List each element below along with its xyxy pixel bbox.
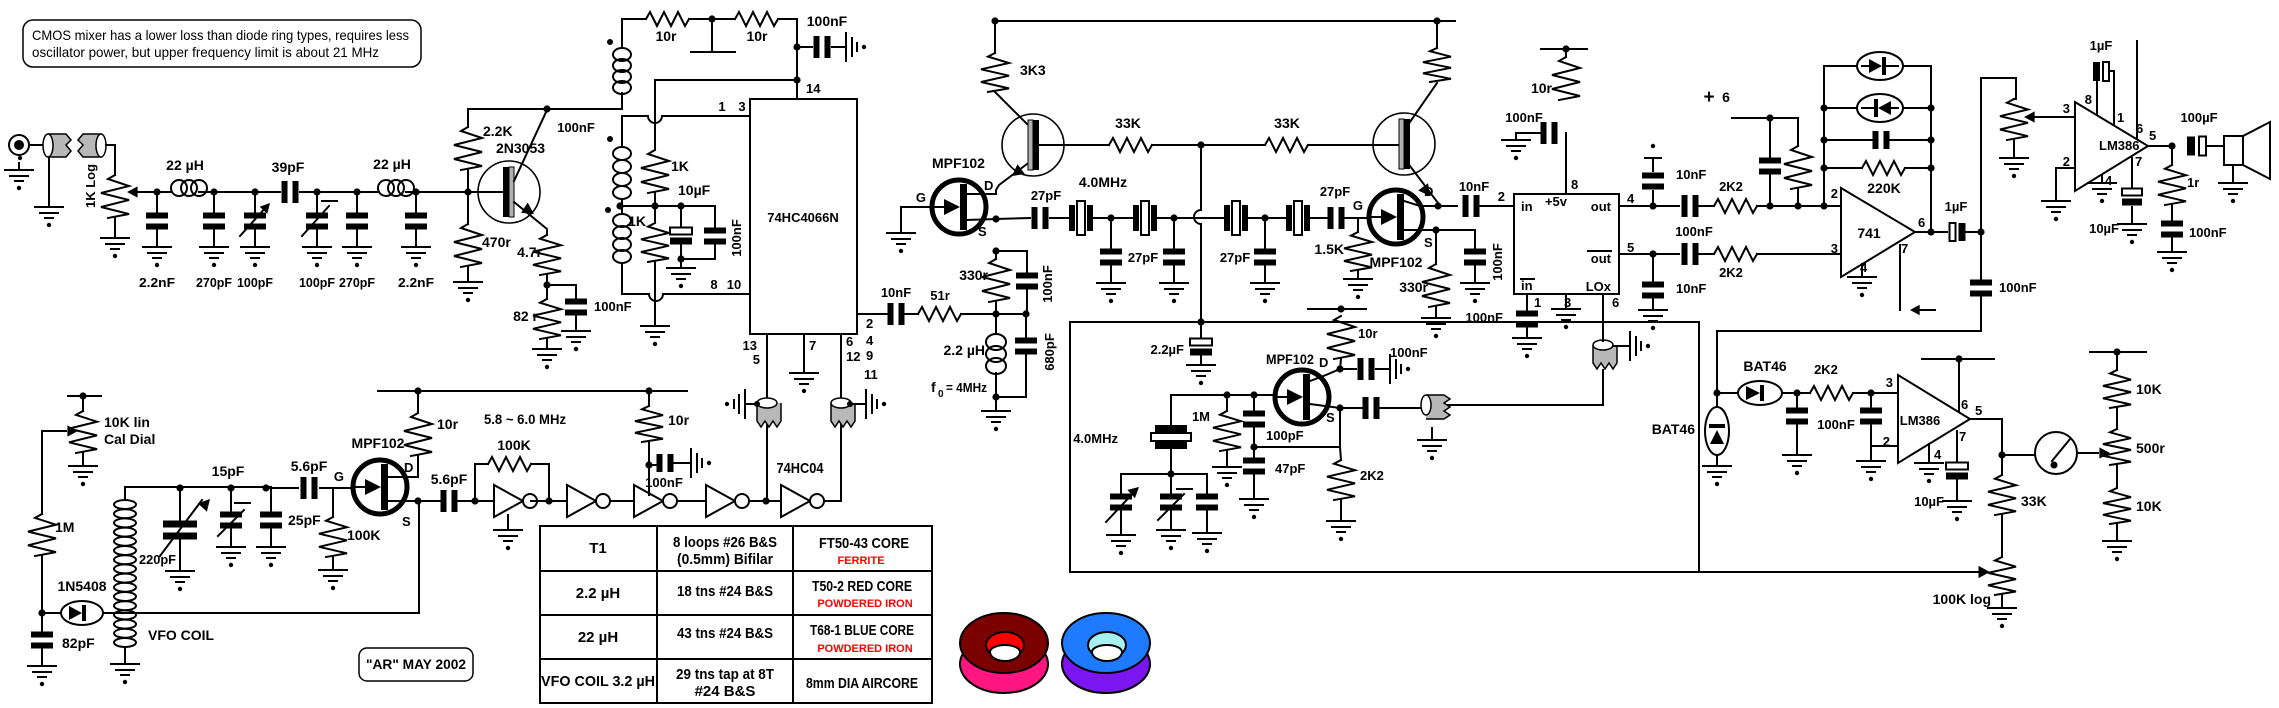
svg-text:270pF: 270pF [196, 275, 232, 290]
svg-text:oscillator power, but upper fr: oscillator power, but upper frequency li… [32, 44, 379, 60]
svg-text:1K Log: 1K Log [83, 164, 98, 208]
svg-text:5.6pF: 5.6pF [431, 471, 468, 487]
svg-text:LOx: LOx [1586, 279, 1612, 294]
svg-text:1M: 1M [55, 519, 74, 535]
svg-text:100nF: 100nF [557, 120, 595, 135]
svg-text:33K: 33K [2021, 493, 2047, 509]
svg-text:270pF: 270pF [339, 275, 375, 290]
svg-text:2K2: 2K2 [1719, 179, 1743, 194]
svg-text:500r: 500r [2136, 440, 2165, 456]
svg-text:#24 B&S: #24 B&S [695, 683, 756, 700]
svg-text:100pF: 100pF [237, 275, 273, 290]
svg-text:2N3053: 2N3053 [496, 140, 545, 156]
svg-text:10K: 10K [2136, 498, 2162, 514]
svg-text:4.7r: 4.7r [517, 244, 542, 260]
svg-text:CMOS mixer has a lower loss th: CMOS mixer has a lower loss than diode r… [32, 27, 409, 43]
svg-text:5: 5 [1627, 240, 1634, 255]
svg-text:10K lin: 10K lin [104, 414, 150, 430]
svg-text:1K: 1K [671, 158, 689, 174]
svg-text:100pF: 100pF [299, 275, 335, 290]
svg-text:1: 1 [2117, 110, 2124, 125]
svg-text:330r: 330r [959, 267, 988, 283]
svg-text:33K: 33K [1274, 115, 1300, 131]
svg-text:= 4MHz: = 4MHz [946, 380, 987, 395]
svg-text:+5v: +5v [1545, 194, 1568, 209]
svg-text:10r: 10r [1531, 80, 1553, 96]
svg-text:8: 8 [1571, 177, 1578, 192]
svg-text:10nF: 10nF [1676, 281, 1706, 296]
svg-text:VFO COIL 3.2 µH: VFO COIL 3.2 µH [541, 673, 655, 690]
svg-text:100K: 100K [497, 437, 530, 453]
svg-text:470r: 470r [482, 234, 511, 250]
svg-text:T50-2 RED CORE: T50-2 RED CORE [812, 578, 912, 595]
svg-text:7: 7 [809, 338, 816, 353]
svg-text:S: S [402, 514, 411, 529]
svg-text:G: G [1353, 198, 1363, 213]
svg-text:BAT46: BAT46 [1743, 358, 1787, 374]
svg-text:2K2: 2K2 [1719, 265, 1743, 280]
svg-text:10K: 10K [2136, 381, 2162, 397]
svg-text:MPF102: MPF102 [1370, 254, 1423, 270]
svg-text:FT50-43 CORE: FT50-43 CORE [819, 535, 909, 552]
svg-text:220K: 220K [1867, 180, 1900, 196]
svg-text:18 tns #24 B&S: 18 tns #24 B&S [677, 583, 773, 600]
svg-text:6: 6 [1918, 215, 1925, 230]
svg-text:BAT46: BAT46 [1652, 421, 1696, 437]
svg-text:10nF: 10nF [1459, 179, 1489, 194]
svg-text:4: 4 [1934, 447, 1942, 462]
svg-text:100nF: 100nF [1817, 417, 1855, 432]
svg-text:2.2µF: 2.2µF [1150, 342, 1184, 357]
svg-text:1M: 1M [1192, 409, 1210, 424]
svg-text:D: D [1319, 355, 1328, 370]
svg-text:VFO COIL: VFO COIL [148, 627, 215, 643]
svg-text:D: D [1424, 184, 1433, 199]
svg-text:2: 2 [866, 316, 873, 331]
svg-text:6: 6 [1722, 89, 1730, 105]
svg-text:0: 0 [938, 389, 944, 400]
svg-text:8: 8 [2085, 92, 2092, 107]
svg-text:74HC4066N: 74HC4066N [767, 210, 839, 225]
svg-text:100nF: 100nF [2189, 225, 2227, 240]
svg-text:5: 5 [753, 352, 760, 367]
svg-text:2.2nF: 2.2nF [398, 275, 434, 290]
svg-text:27pF: 27pF [1031, 188, 1061, 203]
svg-text:100nF: 100nF [1040, 265, 1055, 303]
svg-text:5.6pF: 5.6pF [291, 458, 328, 474]
svg-text:in: in [1521, 278, 1533, 293]
svg-text:"AR" MAY 2002: "AR" MAY 2002 [366, 656, 466, 672]
svg-text:10r: 10r [655, 28, 677, 44]
svg-text:6: 6 [1961, 397, 1968, 412]
svg-text:741: 741 [1857, 225, 1881, 241]
svg-text:6: 6 [1612, 295, 1619, 310]
svg-text:D: D [984, 178, 993, 193]
svg-text:27pF: 27pF [1220, 250, 1250, 265]
svg-text:100nF: 100nF [594, 299, 632, 314]
svg-text:27pF: 27pF [1320, 184, 1350, 199]
svg-text:12: 12 [846, 349, 860, 364]
svg-text:2K2: 2K2 [1814, 362, 1838, 377]
svg-text:100K: 100K [347, 527, 380, 543]
svg-text:T68-1 BLUE CORE: T68-1 BLUE CORE [810, 622, 914, 639]
svg-text:(0.5mm) Bifilar: (0.5mm) Bifilar [677, 551, 773, 568]
svg-text:9: 9 [866, 348, 873, 363]
svg-text:220pF: 220pF [139, 552, 176, 567]
svg-text:10r: 10r [1358, 326, 1378, 341]
svg-text:10nF: 10nF [1676, 167, 1706, 182]
svg-text:8: 8 [710, 277, 717, 292]
svg-text:82 r: 82 r [513, 308, 538, 324]
svg-text:LM386: LM386 [2099, 138, 2139, 153]
svg-text:2: 2 [1498, 189, 1505, 204]
svg-text:1µF: 1µF [1945, 199, 1968, 214]
svg-text:1: 1 [1534, 295, 1541, 310]
svg-text:+: + [1703, 87, 1714, 108]
svg-text:out: out [1591, 251, 1612, 266]
svg-text:8mm DIA AIRCORE: 8mm DIA AIRCORE [806, 675, 918, 692]
svg-text:27pF: 27pF [1128, 250, 1158, 265]
svg-text:1K: 1K [628, 213, 646, 229]
svg-text:4: 4 [2105, 173, 2113, 188]
svg-text:1.5K: 1.5K [1314, 241, 1344, 257]
svg-text:f: f [931, 379, 936, 395]
svg-text:POWDERED IRON: POWDERED IRON [817, 643, 912, 655]
svg-text:3: 3 [1831, 241, 1838, 256]
svg-text:14: 14 [806, 81, 821, 96]
svg-text:47pF: 47pF [1275, 461, 1305, 476]
svg-text:10r: 10r [437, 416, 459, 432]
svg-text:2.2K: 2.2K [483, 123, 513, 139]
svg-text:1µF: 1µF [2090, 38, 2113, 53]
svg-text:10µF: 10µF [2089, 221, 2119, 236]
svg-text:Cal Dial: Cal Dial [104, 431, 155, 447]
svg-text:13: 13 [743, 338, 757, 353]
svg-text:2K2: 2K2 [1360, 468, 1384, 483]
svg-text:100nF: 100nF [1465, 310, 1503, 325]
svg-text:1r: 1r [2187, 175, 2199, 190]
svg-text:29 tns tap at 8T: 29 tns tap at 8T [676, 666, 774, 683]
svg-text:330r: 330r [1399, 279, 1428, 295]
svg-text:5.8 ~ 6.0 MHz: 5.8 ~ 6.0 MHz [484, 411, 566, 427]
svg-text:G: G [916, 190, 926, 205]
svg-text:10r: 10r [668, 412, 690, 428]
svg-text:680pF: 680pF [1042, 333, 1057, 371]
svg-text:100nF: 100nF [645, 475, 683, 490]
svg-text:1: 1 [718, 99, 725, 114]
svg-text:S: S [1326, 410, 1335, 425]
svg-text:10: 10 [727, 277, 741, 292]
svg-text:MPF102: MPF102 [352, 435, 405, 451]
svg-text:out: out [1591, 199, 1612, 214]
svg-text:22 µH: 22 µH [166, 157, 204, 173]
svg-text:10nF: 10nF [881, 285, 911, 300]
svg-text:3: 3 [2063, 101, 2070, 116]
svg-text:3K3: 3K3 [1020, 62, 1046, 78]
svg-text:100nF: 100nF [729, 219, 744, 257]
svg-text:100pF: 100pF [1266, 428, 1304, 443]
svg-text:100µF: 100µF [2180, 110, 2217, 125]
svg-text:T1: T1 [589, 540, 607, 557]
svg-text:2: 2 [1831, 186, 1838, 201]
svg-text:LM386: LM386 [1900, 413, 1940, 428]
svg-text:22 µH: 22 µH [373, 156, 411, 172]
svg-text:33K: 33K [1115, 115, 1141, 131]
svg-text:2.2nF: 2.2nF [139, 275, 175, 290]
svg-text:2: 2 [2063, 154, 2070, 169]
svg-text:3: 3 [1886, 375, 1893, 390]
svg-text:1N5408: 1N5408 [57, 578, 106, 594]
svg-text:5: 5 [2149, 128, 2156, 143]
svg-text:22 µH: 22 µH [578, 629, 618, 646]
svg-text:39pF: 39pF [272, 159, 305, 175]
svg-text:74HC04: 74HC04 [777, 460, 825, 477]
svg-text:4.0MHz: 4.0MHz [1073, 431, 1118, 446]
svg-text:2.2 µH: 2.2 µH [576, 585, 621, 602]
svg-text:S: S [1424, 235, 1433, 250]
svg-text:100nF: 100nF [1490, 243, 1505, 281]
svg-text:4: 4 [866, 333, 874, 348]
svg-text:POWDERED IRON: POWDERED IRON [817, 598, 912, 610]
svg-text:S: S [978, 224, 987, 239]
svg-text:100nF: 100nF [1390, 345, 1428, 360]
svg-text:51r: 51r [930, 288, 950, 303]
svg-text:8 loops #26 B&S: 8 loops #26 B&S [673, 534, 777, 551]
svg-text:3: 3 [738, 99, 745, 114]
svg-text:D: D [404, 460, 413, 475]
svg-text:MPF102: MPF102 [1266, 351, 1314, 367]
svg-text:5: 5 [1975, 403, 1982, 418]
svg-text:7: 7 [1959, 429, 1966, 444]
svg-text:4.0MHz: 4.0MHz [1079, 174, 1127, 190]
svg-text:2.2 µH: 2.2 µH [943, 342, 985, 358]
svg-text:100K log: 100K log [1933, 591, 1991, 607]
svg-text:6: 6 [846, 334, 853, 349]
svg-text:MPF102: MPF102 [932, 155, 985, 171]
svg-text:4: 4 [1627, 191, 1635, 206]
svg-text:10µF: 10µF [1914, 494, 1944, 509]
svg-text:100nF: 100nF [1999, 280, 2037, 295]
svg-text:25pF: 25pF [288, 512, 321, 528]
svg-text:82pF: 82pF [62, 635, 95, 651]
svg-text:10µF: 10µF [678, 182, 711, 198]
svg-text:in: in [1521, 199, 1533, 214]
svg-text:43 tns #24 B&S: 43 tns #24 B&S [677, 625, 773, 642]
svg-text:100nF: 100nF [1505, 110, 1543, 125]
svg-text:100nF: 100nF [807, 13, 848, 29]
svg-text:FERRITE: FERRITE [837, 555, 884, 567]
svg-text:7: 7 [2135, 154, 2142, 169]
svg-text:G: G [334, 469, 344, 484]
svg-text:11: 11 [864, 367, 878, 382]
svg-text:10r: 10r [746, 28, 768, 44]
svg-text:100nF: 100nF [1675, 224, 1713, 239]
svg-text:7: 7 [1901, 241, 1908, 256]
svg-text:15pF: 15pF [212, 463, 245, 479]
